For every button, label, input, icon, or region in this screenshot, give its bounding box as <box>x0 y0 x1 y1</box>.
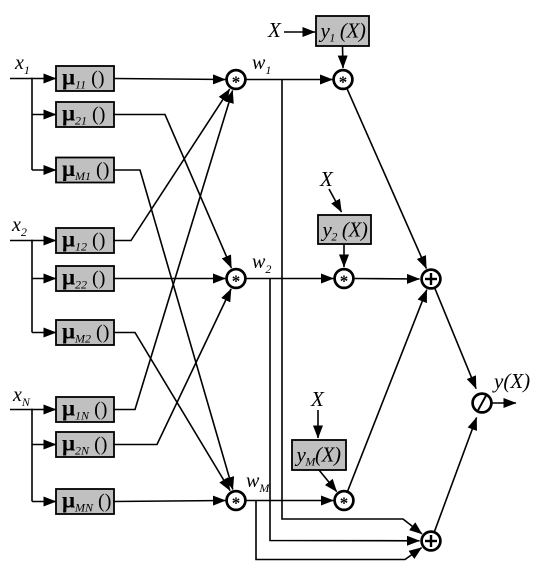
svg-text:y2 (X): y2 (X) <box>321 218 368 244</box>
svg-text:y1 (X): y1 (X) <box>319 19 366 45</box>
svg-text:yM(X): yM(X) <box>295 443 342 469</box>
svg-text:y(X): y(X) <box>492 369 530 393</box>
svg-text:*: * <box>339 73 348 92</box>
svg-text:X: X <box>319 167 334 191</box>
svg-text:*: * <box>340 494 349 513</box>
svg-text:*: * <box>232 494 241 513</box>
svg-text:*: * <box>232 272 241 291</box>
svg-text:*: * <box>232 73 241 92</box>
svg-text:X: X <box>267 18 282 42</box>
svg-text:X: X <box>310 387 325 411</box>
svg-text:*: * <box>340 272 349 291</box>
